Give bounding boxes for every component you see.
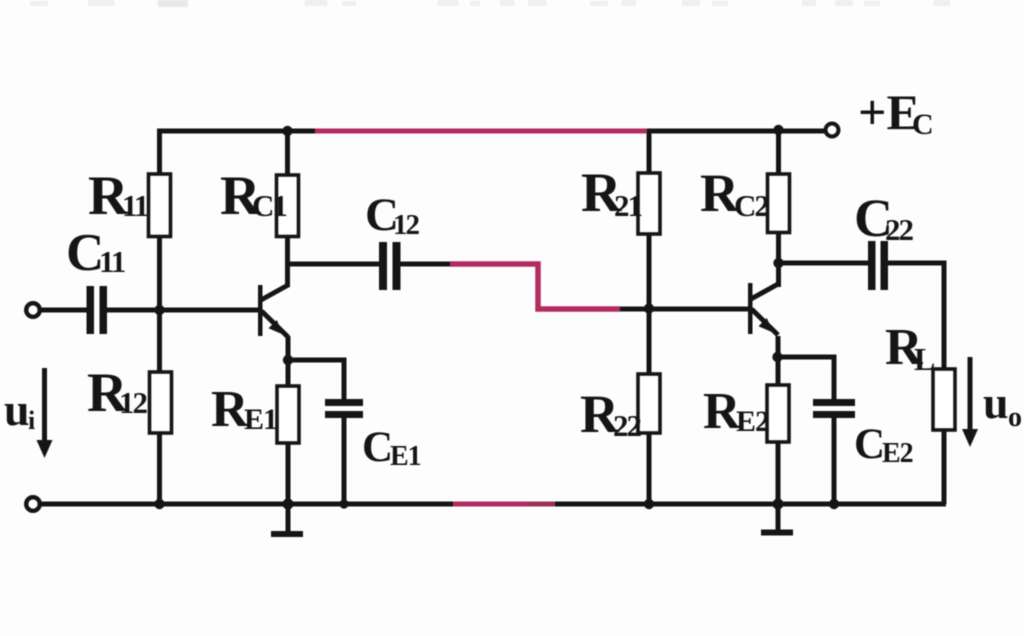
ground 2 <box>761 530 793 536</box>
wire: Q1 collector node to C12 <box>288 262 381 267</box>
wire: emitter node down to RE1 <box>286 360 291 386</box>
resistor RL <box>933 369 955 430</box>
output/bottom terminal <box>26 497 40 511</box>
wire: C22 right plate to RL top <box>886 263 944 369</box>
transistor Q1 <box>258 285 289 338</box>
svg-text:22: 22 <box>885 212 914 247</box>
wire: R11 bottom to base node <box>157 237 162 311</box>
svg-text:11: 11 <box>122 188 148 223</box>
capacitor CE2 <box>813 399 855 418</box>
capacitor C12 <box>379 242 401 290</box>
svg-text:o: o <box>1008 402 1022 433</box>
wire: ground stub 2 <box>776 504 781 531</box>
arrow: input current ui <box>37 368 53 458</box>
node: CE2 to rail <box>829 499 839 509</box>
wire: pink link end to stage2 base node <box>617 307 651 312</box>
wire: RL bottom to rail <box>942 430 947 504</box>
wire: CE2 bottom to rail <box>832 417 837 504</box>
svg-text:E1: E1 <box>244 403 277 436</box>
wire: top supply rail left black segment <box>157 129 322 134</box>
svg-text:+E: +E <box>858 84 920 140</box>
resistor R22 <box>638 374 660 433</box>
wire: bottom rail <box>40 502 946 507</box>
node: CE1 to rail <box>339 499 348 508</box>
node: Q2 base junction <box>644 303 654 313</box>
node: RE2 to rail <box>773 499 784 510</box>
node: rail-RC2 junction <box>773 125 783 135</box>
wire: R11 branch top (rail to R11) <box>157 129 162 175</box>
transistor Q2 <box>748 283 779 335</box>
wire: RE1 bottom to bottom rail <box>286 443 291 504</box>
wire: RC2 bottom to Q2 collector kink <box>776 233 781 288</box>
node: rail-RC1 junction <box>282 126 292 136</box>
+Ec terminal <box>826 124 839 137</box>
svg-text:u: u <box>983 377 1009 428</box>
wire: RE2 bottom to rail <box>776 442 781 504</box>
wire: rail to R21 <box>647 129 652 174</box>
resistor R12 <box>150 372 172 433</box>
resistor RE2 <box>767 385 789 442</box>
pink highlighted wire: top rail segment <box>315 129 647 134</box>
node: Q2 emitter junction <box>772 352 782 362</box>
arrow: output current uo <box>962 357 978 447</box>
wire: C11 to base node to Q1 base <box>107 308 259 313</box>
capacitor CE1 <box>325 399 363 418</box>
node: R12 to rail <box>154 499 164 509</box>
wire: ground stub 1 <box>286 504 291 533</box>
resistor R21 <box>638 173 660 234</box>
svg-text:C2: C2 <box>734 188 769 223</box>
svg-text:12: 12 <box>119 385 148 420</box>
wire: rail to RC2 <box>776 129 781 175</box>
input terminal <box>26 303 40 317</box>
resistor RC1 <box>277 175 299 237</box>
wire: R22 bottom to rail <box>647 433 652 504</box>
wire: emitter node 2 down to RE2 <box>776 357 781 385</box>
svg-text:C: C <box>362 424 393 471</box>
wire: top supply rail right black segment <box>642 129 824 134</box>
resistor R11 <box>149 174 171 237</box>
node: R22 to rail <box>644 499 654 509</box>
wire: base node 2 down to R22 <box>647 309 652 374</box>
svg-text:E2: E2 <box>736 405 769 438</box>
wire: base node down to R12 <box>157 310 162 372</box>
node: Q2 collector junction <box>773 258 783 268</box>
wire: R12 bottom to bottom rail <box>157 433 162 504</box>
pink highlighted wire: bottom rail overlap end <box>527 502 555 507</box>
wire: C12 right plate to pink link <box>400 262 455 267</box>
svg-text:C1: C1 <box>252 188 286 223</box>
capacitor C22 <box>868 241 888 290</box>
svg-text:12: 12 <box>393 209 420 241</box>
wire: input terminal to C11 <box>40 308 87 313</box>
wire: Q2 emitter down to node <box>776 336 781 359</box>
wire: emitter node to CE1 <box>288 360 344 400</box>
wire: Q1 emitter down to node <box>286 336 291 362</box>
node: RE1 to rail <box>283 499 294 510</box>
svg-text:L: L <box>914 341 935 377</box>
svg-text:C: C <box>912 108 934 141</box>
wire: Q2 collector node to C22 <box>779 261 870 266</box>
node: Q1 emitter junction <box>283 355 293 365</box>
svg-text:C: C <box>854 421 885 468</box>
svg-text:11: 11 <box>99 244 125 279</box>
svg-text:E1: E1 <box>390 441 421 472</box>
wire: RC1 bottom to Q1 collector kink <box>285 237 290 288</box>
svg-text:u: u <box>4 384 30 435</box>
wire: R21 bottom to base node 2 <box>647 234 652 309</box>
wire: rail to RC1 <box>285 129 290 176</box>
pink highlighted wire: bottom rail segment <box>453 502 530 507</box>
wire: CE1 bottom to rail <box>342 417 347 504</box>
svg-text:22: 22 <box>613 408 642 443</box>
wire: Q2 base wire <box>649 307 749 312</box>
svg-text:21: 21 <box>614 188 642 223</box>
resistor RE1 <box>277 386 299 443</box>
svg-text:i: i <box>28 406 35 435</box>
svg-text:E2: E2 <box>882 438 913 469</box>
pink highlighted wire: interstage link <box>450 264 620 309</box>
node: Q1 base junction <box>154 305 164 315</box>
ground 1 <box>271 531 303 537</box>
resistor RC2 <box>768 174 790 233</box>
wire: emitter node 2 to CE2 <box>778 357 834 400</box>
faint cut-off text remnants at top <box>30 0 950 7</box>
capacitor C11 <box>87 286 108 334</box>
